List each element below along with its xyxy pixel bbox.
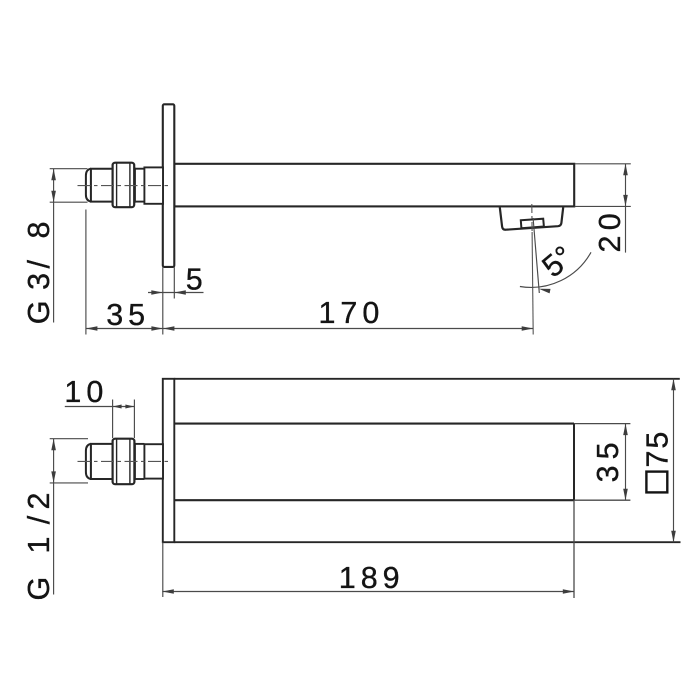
dimension 10 extension lines bbox=[112, 400, 114, 439]
svg-text:1: 1 bbox=[22, 537, 56, 554]
hex nut side view bbox=[113, 163, 135, 208]
svg-text:/: / bbox=[22, 260, 56, 269]
dimension 5 extension lines bbox=[162, 267, 164, 334]
dimension 10 line bbox=[65, 406, 135, 408]
flange plan view bbox=[163, 379, 175, 542]
svg-text:2: 2 bbox=[22, 493, 56, 510]
svg-text:7: 7 bbox=[641, 451, 675, 468]
svg-text:5: 5 bbox=[641, 432, 675, 449]
svg-text:G: G bbox=[22, 577, 56, 601]
dimension G 3/8 extension lines bbox=[50, 168, 88, 170]
dimension 189 extension line bbox=[162, 542, 164, 597]
dimension G 1/2 extension lines bbox=[50, 438, 88, 440]
thread pipe section top view bbox=[144, 167, 163, 203]
svg-text:3: 3 bbox=[22, 273, 56, 290]
spout body side view bbox=[174, 164, 574, 207]
svg-text:189: 189 bbox=[339, 561, 405, 595]
svg-text:5: 5 bbox=[591, 442, 625, 459]
dimension 35 plan line bbox=[625, 424, 627, 501]
dimension 75 line bbox=[673, 379, 675, 542]
svg-text:/: / bbox=[22, 515, 56, 524]
dimension 170 line bbox=[163, 328, 533, 330]
svg-text:8: 8 bbox=[22, 222, 56, 239]
dimension 20 extension lines bbox=[575, 163, 631, 165]
dimension G 3/8 line bbox=[53, 169, 55, 323]
flange top edge extension bbox=[174, 378, 680, 380]
svg-text:170: 170 bbox=[318, 296, 384, 330]
hex nut plan view bbox=[113, 439, 135, 485]
svg-text:3: 3 bbox=[591, 465, 625, 482]
svg-text:2: 2 bbox=[593, 236, 627, 253]
label square 75 bbox=[646, 472, 667, 493]
dimension 35 line bbox=[86, 328, 163, 330]
aerator insert bbox=[521, 219, 544, 229]
dimension 189 line bbox=[162, 591, 574, 593]
flange bottom edge extension bbox=[174, 541, 680, 543]
svg-text:0: 0 bbox=[593, 213, 627, 230]
svg-text:10: 10 bbox=[64, 375, 108, 409]
dimension G 1/2 line bbox=[53, 439, 55, 595]
wall flange side view bbox=[163, 104, 175, 267]
angle 5 deg slanted line bbox=[533, 218, 539, 293]
outlet aerator housing bbox=[500, 207, 563, 229]
dimension 5 line bbox=[148, 292, 204, 294]
threaded nipple G3/8 side view bbox=[91, 169, 135, 202]
centerline plan view bbox=[78, 460, 171, 462]
svg-text:35: 35 bbox=[106, 298, 150, 332]
centerline top view bbox=[78, 185, 171, 187]
threaded nipple G1/2 plan view bbox=[91, 444, 135, 479]
angle 5 deg arc bbox=[520, 252, 591, 287]
svg-text:5: 5 bbox=[186, 263, 208, 297]
spout body plan view bbox=[174, 423, 574, 425]
svg-text:G: G bbox=[22, 301, 56, 325]
outlet axis centerline bbox=[531, 204, 533, 232]
dimension 35 extension line bbox=[85, 210, 87, 335]
dimension 20 line bbox=[625, 164, 627, 253]
thread pipe section plan view bbox=[144, 444, 163, 478]
